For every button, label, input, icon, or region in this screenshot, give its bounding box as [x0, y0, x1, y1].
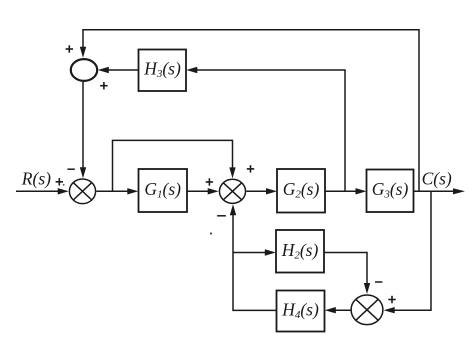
sign + top left of S1: [66, 45, 73, 52]
svg-text:H2(s): H2(s): [281, 240, 319, 261]
wire outer feedback from output top line into S1: [80, 29, 420, 191]
block H4: [277, 291, 325, 332]
block G2: [277, 169, 325, 213]
block G1: [139, 169, 188, 212]
wire H3 to summing junction S1: [98, 67, 139, 73]
sign + left of S3: [206, 178, 213, 185]
wire input R(s) to summing junction S2: [16, 188, 69, 194]
sign - below S3: [217, 215, 226, 217]
wire G2 to G3: [325, 188, 367, 194]
block G3: [367, 170, 414, 213]
wire down takeoff after G3 to S4: [384, 191, 432, 313]
wire G1 to S3: [187, 188, 219, 194]
summing junction S1: [71, 59, 97, 81]
wire S3 to block G2: [246, 188, 277, 194]
wire S1 down to S2: [80, 82, 86, 178]
summing junction S3: [219, 179, 245, 203]
svg-text:C(s): C(s): [422, 169, 452, 189]
sign + right of S3 top arrow: [247, 165, 254, 172]
wire tap to H2 input: [233, 249, 276, 255]
block H2: [276, 230, 324, 273]
svg-text:G2(s): G2(s): [283, 179, 320, 201]
wire feedback into H3: [186, 67, 345, 73]
wire takeoff after S2 up and over to S3: [112, 140, 236, 192]
sign + above S4 right input: [388, 296, 395, 303]
wire takeoff between G2 and G3 up to H3 row: [344, 70, 346, 191]
svg-text:G1(s): G1(s): [144, 179, 181, 201]
wire S2 to block G1: [96, 188, 138, 194]
svg-text:R(s): R(s): [21, 169, 51, 189]
stray print dot: [210, 232, 212, 234]
sign + at S2 input: [56, 178, 63, 185]
block H3: [139, 50, 187, 92]
wire S4 to H4: [325, 307, 351, 313]
wire G3 to output C(s): [414, 188, 466, 194]
summing junction S2: [69, 179, 95, 204]
sign - above S2: [67, 168, 74, 170]
sign - right of S4 top arrow: [375, 281, 382, 283]
stray print dot near input plus: [63, 184, 65, 186]
sign + right below S1: [100, 82, 107, 89]
wire H4 output left and up into S3: [230, 204, 277, 311]
wire H2 output down into S4: [324, 252, 370, 294]
svg-text:H4(s): H4(s): [281, 300, 319, 322]
summing junction S4: [351, 295, 383, 325]
svg-text:G3(s): G3(s): [372, 179, 409, 201]
svg-text:H3(s): H3(s): [143, 59, 181, 81]
